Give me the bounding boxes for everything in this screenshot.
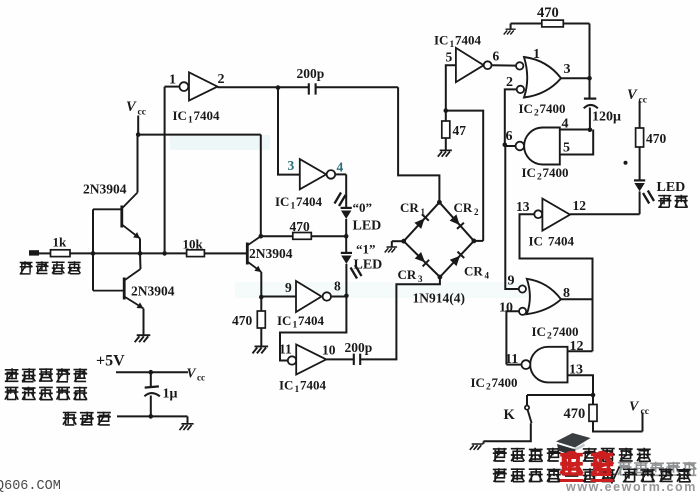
wire stub	[483, 441, 485, 444]
wire LED1 to pin8 wire	[345, 264, 347, 296]
LED "1" LED	[341, 252, 352, 254]
wire Q3 collector wire	[261, 235, 293, 237]
inverter U1b (IC1 7404 pins 3,4)	[300, 159, 326, 189]
note line1 开关断开—存贮方式	[493, 448, 507, 462]
scan artifact dot	[624, 161, 628, 165]
svg-text:2: 2	[547, 332, 552, 342]
NAND gate U2a (IC2 7400 pins 1,2,3)	[524, 57, 561, 98]
ground at R6 left	[504, 29, 516, 34]
svg-text:IC: IC	[277, 313, 291, 328]
wire U1a output	[218, 86, 309, 88]
wire C2 to bridge bottom	[360, 277, 440, 359]
transistor Q1 (2N3904 NPN)	[120, 206, 123, 228]
resistor R7 470	[636, 128, 644, 147]
resistor R8 470	[589, 405, 597, 422]
wire J9 up	[589, 24, 591, 79]
svg-text:CR: CR	[464, 264, 483, 279]
ground below R4	[253, 346, 269, 353]
svg-text:5: 5	[446, 50, 453, 65]
capacitor C2 200p	[354, 354, 360, 365]
node bridge bottom	[438, 275, 443, 280]
svg-text:7400: 7400	[553, 324, 579, 339]
svg-text:7400: 7400	[540, 101, 566, 116]
svg-text:9: 9	[285, 280, 292, 295]
wire R4 to gnd	[260, 328, 262, 346]
wire feedback to U1e	[280, 296, 346, 361]
wire to bridge top	[398, 87, 439, 202]
probe input terminal	[29, 250, 39, 255]
node bridge right	[472, 239, 477, 244]
inverter U1a (IC1 7404 pins 1,2)	[189, 72, 218, 100]
inverter U1c (IC1 7404 pins 5,6)	[456, 48, 484, 82]
svg-text:2: 2	[486, 383, 491, 393]
svg-text:cc: cc	[641, 407, 649, 417]
power Vcc (bottom right)	[642, 413, 644, 432]
svg-text:“0”: “0”	[353, 200, 373, 215]
wire U1c out to NAND pin1	[492, 64, 516, 66]
node J11	[503, 143, 508, 148]
wire pin6 output to node	[505, 145, 516, 147]
wire bridge left node stub	[392, 240, 404, 242]
resistor R2 10k	[187, 250, 205, 257]
ground below Q2	[135, 335, 151, 342]
scan artifact: faint cyan band	[170, 135, 270, 150]
wire R8 to Vcc	[593, 421, 643, 431]
resistor R4 470	[257, 311, 265, 328]
svg-text:10k: 10k	[183, 237, 204, 252]
wire to gnd	[187, 416, 189, 423]
wire Q1/Q2 base tie	[92, 209, 94, 290]
inverter U1f (IC1 7404 pins 13,12)	[534, 210, 542, 218]
svg-text:2N3904: 2N3904	[131, 284, 175, 299]
svg-text:3: 3	[288, 158, 295, 173]
wire top wire	[511, 23, 590, 25]
svg-text:47: 47	[453, 123, 467, 138]
svg-text:LED: LED	[354, 258, 383, 273]
capacitor C4 1μ (polarized)	[150, 372, 152, 387]
wire node to LED1	[345, 236, 347, 252]
svg-text:1: 1	[421, 207, 426, 217]
svg-text:K: K	[504, 407, 516, 423]
NAND gate U2d (IC2 7400 pins 11,12,13)	[530, 347, 567, 383]
wire pin2 input	[505, 89, 517, 144]
wire Q1 emitter to node	[139, 239, 141, 254]
svg-text:10: 10	[322, 343, 336, 358]
svg-text:1: 1	[169, 73, 176, 88]
node J9	[587, 76, 592, 81]
svg-text:7404: 7404	[298, 313, 325, 328]
svg-text:2: 2	[474, 207, 479, 217]
wire C1 to corner	[316, 86, 399, 88]
wire to R2	[165, 252, 187, 254]
svg-text:470: 470	[537, 5, 559, 21]
svg-text:V: V	[126, 99, 137, 115]
node J10	[588, 128, 593, 133]
ground common	[180, 424, 194, 430]
wire pin10 input	[506, 311, 519, 364]
wire LED down	[639, 191, 641, 214]
svg-text:cc: cc	[197, 373, 205, 383]
node J7	[344, 294, 349, 299]
node Vcc node	[136, 132, 141, 137]
svg-text:1: 1	[450, 40, 455, 50]
wire pin9 input	[505, 146, 519, 289]
wire +5V rail	[116, 371, 188, 373]
wire switch to gnd	[484, 423, 531, 441]
ground at bridge left	[385, 247, 397, 253]
svg-text:12: 12	[573, 198, 587, 213]
wire node to Q1/Q2	[93, 252, 140, 254]
wire R7 to LED	[639, 147, 641, 180]
svg-text:120μ: 120μ	[592, 110, 621, 125]
wire bridge right node up	[474, 240, 483, 242]
svg-text:1: 1	[291, 202, 296, 212]
resistor R6 470	[542, 20, 564, 27]
svg-text:LED: LED	[657, 180, 686, 195]
svg-text:13: 13	[516, 199, 530, 214]
LED pulse LED	[634, 179, 645, 181]
wire R3 to LED node	[311, 235, 346, 237]
svg-text:V: V	[187, 366, 197, 381]
wire pin5	[560, 130, 593, 155]
ground at switch	[470, 444, 484, 450]
wire stub	[510, 24, 512, 29]
wire Vcc stub	[137, 116, 139, 135]
svg-text:CR: CR	[454, 200, 473, 215]
wire pin13 to bus	[520, 214, 593, 351]
wire J8 up to U1c input	[446, 65, 456, 110]
node J14	[149, 414, 154, 419]
resistor R1 1k	[51, 250, 71, 257]
node J12	[591, 393, 596, 398]
wire to inverter1 drop	[140, 252, 165, 254]
svg-text:V: V	[627, 87, 638, 103]
svg-text:1N914(4): 1N914(4)	[413, 291, 466, 306]
svg-text:7404: 7404	[455, 33, 482, 48]
diode CR4 (1N914)	[450, 256, 460, 266]
label 脉冲 (pulse)	[658, 195, 671, 208]
ground below R5	[438, 150, 452, 156]
NAND gate U2b (IC2 7400 pins 4,5,6)	[524, 128, 560, 165]
svg-text:11: 11	[279, 342, 292, 357]
watermark 电子下载站	[618, 462, 632, 475]
LED "0" LED	[341, 207, 352, 209]
svg-text:1: 1	[293, 321, 298, 331]
diode CR1 (1N914)	[414, 218, 424, 229]
node bridge left	[401, 239, 406, 244]
wire pin13	[568, 375, 594, 395]
svg-text:IC: IC	[529, 234, 543, 249]
wire common rail	[117, 415, 188, 417]
svg-text:Q606.COM: Q606.COM	[0, 479, 61, 492]
diode CR3 (1N914)	[415, 252, 425, 262]
switch K	[525, 406, 529, 410]
svg-text:470: 470	[232, 313, 253, 328]
svg-text:1μ: 1μ	[163, 387, 178, 402]
wire LED0 to node	[345, 219, 347, 236]
svg-text:1: 1	[533, 47, 540, 62]
wire U1e out	[326, 358, 353, 360]
node J2	[138, 251, 143, 256]
svg-text:7404: 7404	[548, 234, 575, 249]
svg-text:8: 8	[334, 279, 341, 294]
label 测试探头 (test probe)	[20, 261, 33, 274]
wire down to Q3 collector node	[260, 135, 262, 237]
svg-text:1: 1	[295, 385, 300, 395]
resistor R5 47	[442, 121, 450, 138]
wire R2 to Q3 base	[204, 252, 247, 254]
svg-text:7400: 7400	[492, 375, 518, 390]
wire pin11 output	[506, 364, 521, 366]
svg-text:2: 2	[218, 72, 225, 87]
svg-text:IC: IC	[279, 378, 293, 393]
svg-text:470: 470	[564, 406, 586, 422]
svg-text:1: 1	[188, 116, 193, 126]
diode CR2 (1N914)	[450, 214, 460, 225]
wire R5 to gnd	[445, 138, 447, 150]
svg-text:470: 470	[646, 131, 667, 146]
svg-text:5: 5	[563, 141, 570, 156]
svg-text:200p: 200p	[297, 66, 325, 81]
watermark logo (mortarboard)	[556, 433, 591, 448]
svg-text:9: 9	[508, 274, 515, 289]
svg-text:1k: 1k	[53, 235, 68, 250]
svg-text:6: 6	[506, 129, 513, 144]
svg-text:7404: 7404	[296, 194, 323, 209]
wire U2a output	[561, 77, 590, 79]
svg-text:4: 4	[485, 271, 490, 281]
NAND gate U2c (IC2 7400 pins 9,10,8)	[527, 279, 561, 314]
transistor Q2 (2N3904 NPN)	[123, 278, 126, 300]
inverter U1e (IC1 7404 pins 11,10)	[288, 356, 296, 364]
svg-text:470: 470	[290, 219, 311, 234]
node bridge top	[437, 200, 442, 205]
wire U1d out	[331, 296, 346, 298]
wire Vcc rail to right	[138, 134, 261, 136]
svg-text:IC: IC	[434, 33, 448, 48]
wire Q3 emitter down	[260, 272, 262, 311]
wire U2c output	[561, 298, 593, 300]
wire U1f out to LED	[570, 213, 640, 215]
wire J12 down	[592, 395, 594, 405]
inverter U1d (IC1 7404 pins 9,8)	[296, 281, 322, 312]
wire Q2 emitter down	[143, 309, 145, 335]
svg-text:IC: IC	[471, 375, 485, 390]
svg-text:3: 3	[418, 274, 423, 284]
svg-text:2: 2	[537, 173, 542, 183]
svg-text:LED: LED	[353, 219, 382, 234]
label 取自被测试	[5, 368, 19, 381]
svg-text:6: 6	[493, 49, 500, 64]
svg-text:CR: CR	[398, 267, 417, 282]
svg-text:4: 4	[337, 160, 344, 175]
node J1	[91, 251, 96, 256]
node J5	[259, 234, 264, 239]
wire J6 to U1d input	[261, 296, 296, 298]
wire pin4	[560, 129, 590, 131]
svg-text:IC: IC	[522, 165, 536, 180]
resistor R3 470	[293, 233, 312, 240]
wire U1b out	[335, 173, 346, 175]
svg-text:IC: IC	[173, 108, 187, 123]
svg-text:“1”: “1”	[356, 242, 376, 257]
svg-text:CR: CR	[400, 200, 419, 215]
wire to LED0	[345, 174, 347, 207]
capacitor C1 200p	[309, 83, 316, 94]
transistor Q3 (2N3904 NPN)	[246, 243, 249, 265]
svg-text:2: 2	[506, 75, 513, 90]
node J6	[259, 295, 264, 300]
svg-text:IC: IC	[519, 101, 533, 116]
svg-text:200p: 200p	[345, 340, 373, 355]
wire to R5	[445, 111, 447, 121]
svg-text:IC: IC	[275, 194, 289, 209]
svg-text:7404: 7404	[300, 378, 327, 393]
svg-text:7404: 7404	[194, 108, 221, 123]
node J8	[444, 108, 449, 113]
svg-text:www.eeworm.com: www.eeworm.com	[565, 480, 697, 492]
node J3	[162, 251, 167, 256]
svg-text:3: 3	[564, 62, 571, 77]
wire pin12	[568, 350, 593, 352]
wire J4 to U1b input	[278, 88, 300, 175]
node J13	[149, 370, 154, 375]
svg-text:2: 2	[534, 109, 539, 119]
node LED node	[344, 234, 349, 239]
svg-text:7400: 7400	[543, 165, 569, 180]
wire probe to R1	[39, 252, 51, 254]
note line2 开关闭合—复位/脉冲方式	[493, 468, 507, 482]
capacitor C3 120μ (polarized)	[589, 78, 591, 98]
wire Q2 collector to node	[139, 253, 142, 269]
svg-text:IC: IC	[532, 324, 546, 339]
wire Vcc to R7	[639, 101, 641, 128]
wire Q1 collector to Vcc	[137, 135, 139, 193]
wire inverter1 input drop	[164, 87, 166, 254]
watermark 虫虫 red	[560, 452, 583, 474]
label 公共端	[63, 412, 77, 425]
svg-text:+5V: +5V	[96, 353, 125, 370]
label 电路的电源	[5, 387, 19, 400]
node J4	[276, 85, 281, 90]
svg-text:2N3904: 2N3904	[249, 246, 293, 261]
svg-text:2N3904: 2N3904	[83, 182, 127, 197]
svg-text:V: V	[629, 400, 640, 415]
wire bridge edges	[404, 202, 440, 241]
wire R1 to node	[70, 252, 93, 254]
wire J12 to switch	[527, 394, 593, 396]
